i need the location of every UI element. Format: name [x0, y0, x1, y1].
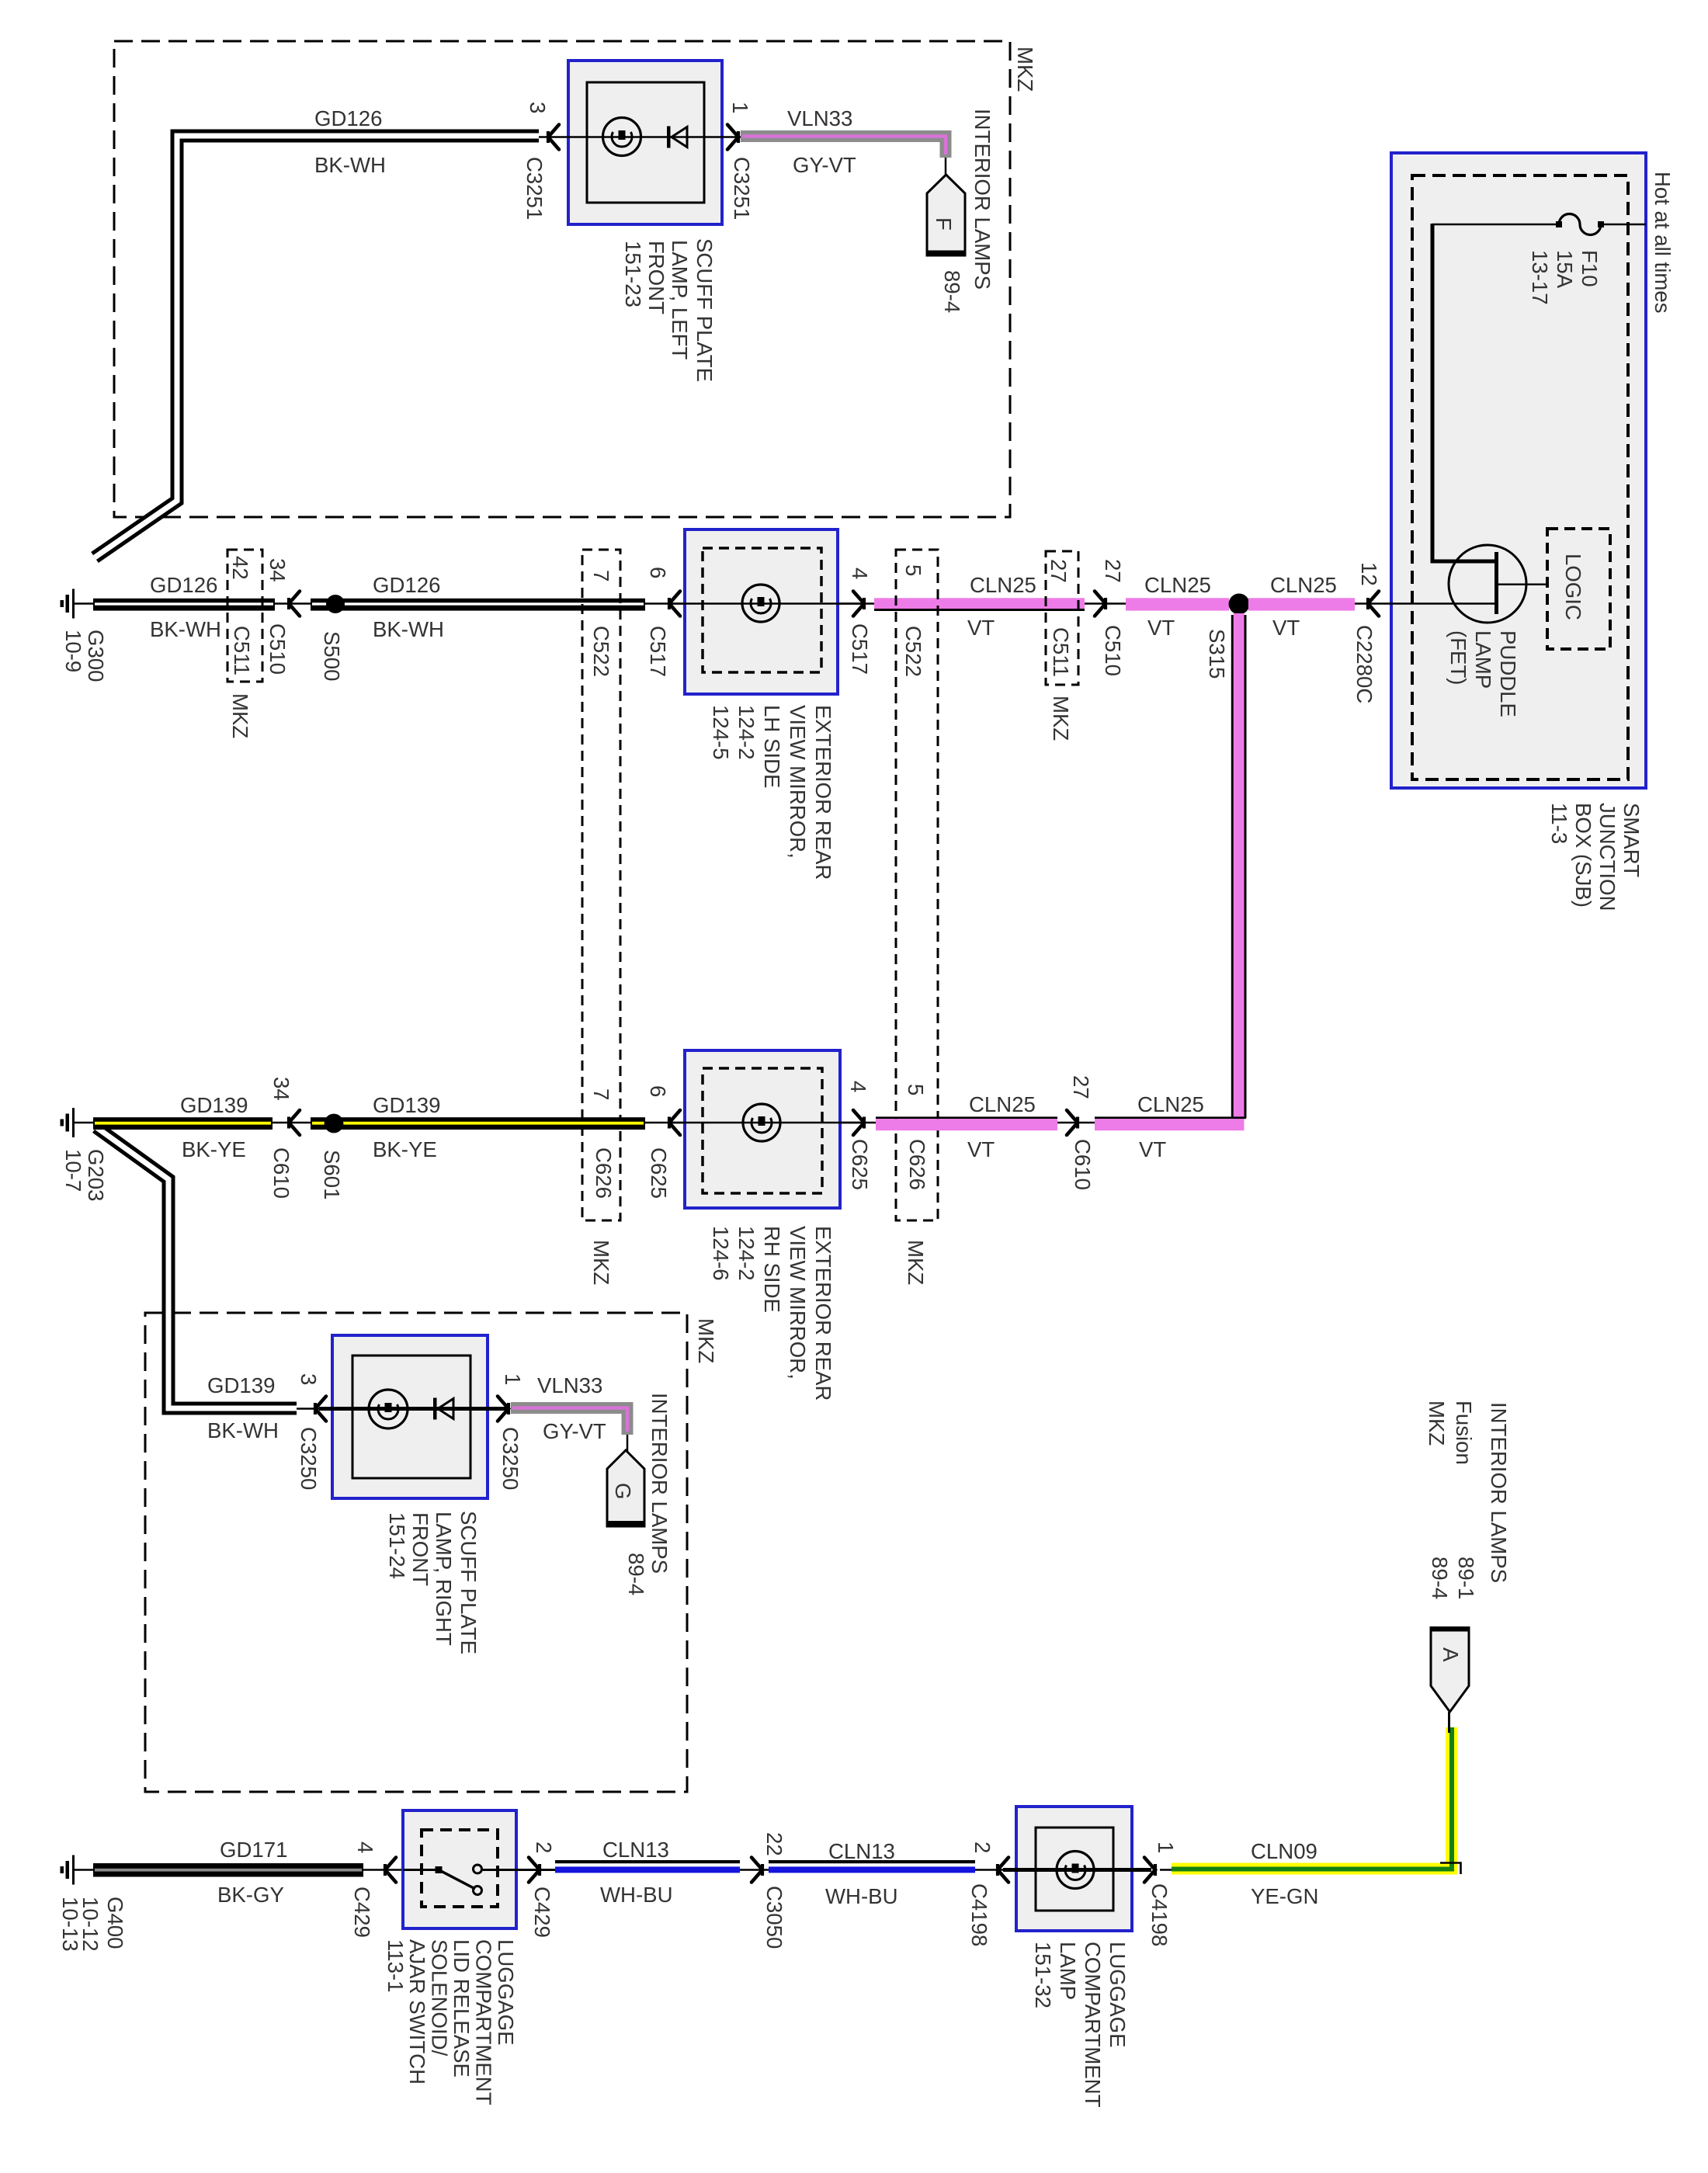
svg-text:C610: C610 [269, 1147, 293, 1199]
svg-text:C3250: C3250 [297, 1427, 321, 1490]
svg-text:LID RELEASE: LID RELEASE [450, 1939, 474, 2078]
in-line connector C522/C626 (7) tall dashed [582, 550, 620, 1220]
wire CLN25 VT segment C510-S315 [1126, 598, 1229, 610]
svg-text:YE-GN: YE-GN [1251, 1884, 1318, 1908]
svg-text:LOGIC: LOGIC [1561, 554, 1585, 620]
wire battery feed to fuse F10 [1432, 224, 1559, 226]
svg-text:LAMP, LEFT: LAMP, LEFT [668, 240, 692, 360]
svg-text:GD139: GD139 [373, 1093, 440, 1117]
svg-text:C2280C: C2280C [1352, 625, 1376, 703]
svg-text:BK-WH: BK-WH [314, 153, 386, 177]
wire through luggage lamp (thick) [1003, 1868, 1151, 1872]
lamp symbol (left scuff) [603, 118, 641, 156]
svg-text:7: 7 [589, 1088, 613, 1100]
svg-text:22: 22 [762, 1832, 786, 1856]
svg-text:VT: VT [1272, 616, 1300, 640]
wire through RH mirror [669, 1122, 864, 1124]
wire CLN13 WH-BU segment 2 [769, 1860, 975, 1863]
wire GD139 BK-YE segment 1 [93, 1117, 273, 1130]
svg-text:SOLENOID/: SOLENOID/ [428, 1939, 452, 2057]
svg-text:C3251: C3251 [522, 157, 547, 220]
svg-text:89-1: 89-1 [1454, 1557, 1478, 1599]
svg-text:MKZ: MKZ [228, 693, 252, 738]
svg-text:C3250: C3250 [498, 1427, 522, 1490]
svg-text:89-4: 89-4 [624, 1553, 648, 1595]
svg-text:10-13: 10-13 [58, 1897, 82, 1952]
svg-text:LH SIDE: LH SIDE [760, 705, 784, 788]
ground G203 [72, 1108, 75, 1137]
svg-text:6: 6 [646, 1085, 670, 1097]
svg-text:VT: VT [1139, 1137, 1166, 1161]
svg-text:1: 1 [728, 102, 752, 113]
svg-text:F: F [932, 217, 956, 231]
svg-text:COMPARTMENT: COMPARTMENT [1081, 1942, 1105, 2108]
svg-text:124-2: 124-2 [734, 1226, 759, 1281]
svg-text:12: 12 [1357, 562, 1381, 586]
in-line connector C511 (42/34) MKZ [227, 550, 262, 682]
switch SW1 contacts [403, 1869, 436, 1871]
wire through scuff right (thick) [319, 1407, 506, 1411]
svg-text:124-5: 124-5 [709, 705, 733, 760]
svg-text:C429: C429 [530, 1887, 554, 1938]
svg-text:1: 1 [501, 1373, 525, 1385]
svg-text:15A: 15A [1553, 250, 1577, 289]
svg-text:MKZ: MKZ [904, 1240, 928, 1285]
svg-text:LUGGAGE: LUGGAGE [494, 1939, 518, 2045]
svg-text:S601: S601 [320, 1150, 344, 1199]
svg-text:VLN33: VLN33 [787, 106, 852, 130]
svg-text:WH-BU: WH-BU [825, 1884, 898, 1908]
wire GD126 BK-WH segment 2 [311, 599, 645, 611]
svg-text:CLN25: CLN25 [969, 1092, 1036, 1116]
transistor Q1 puddle lamp FET [1449, 545, 1526, 623]
svg-text:124-2: 124-2 [734, 705, 759, 760]
wire GD139 BK-WH hollow run to scuff lamp right [96, 1127, 297, 1408]
svg-text:FRONT: FRONT [408, 1512, 432, 1586]
svg-text:C3050: C3050 [762, 1886, 786, 1949]
svg-text:G: G [611, 1483, 635, 1499]
svg-text:GD139: GD139 [180, 1093, 248, 1117]
wire row 2 base line [75, 1122, 876, 1124]
svg-text:89-4: 89-4 [940, 270, 964, 313]
svg-text:CLN25: CLN25 [1270, 573, 1337, 597]
svg-text:GD126: GD126 [150, 573, 217, 597]
svg-text:Hot at all times: Hot at all times [1651, 172, 1675, 314]
svg-text:INTERIOR LAMPS: INTERIOR LAMPS [970, 109, 995, 290]
svg-text:S500: S500 [320, 631, 344, 681]
in-line connector flag G [607, 1450, 644, 1526]
svg-text:42: 42 [228, 556, 252, 580]
svg-text:1: 1 [1154, 1841, 1178, 1853]
svg-text:INTERIOR LAMPS: INTERIOR LAMPS [1487, 1402, 1511, 1583]
svg-text:JUNCTION: JUNCTION [1595, 803, 1619, 911]
in-line connector C511 (27) MKZ [1046, 551, 1078, 685]
svg-text:10-9: 10-9 [61, 630, 85, 672]
svg-text:MKZ: MKZ [694, 1318, 718, 1363]
svg-text:LAMP: LAMP [1471, 630, 1495, 689]
svg-text:13-17: 13-17 [1528, 250, 1552, 305]
svg-text:27: 27 [1047, 559, 1071, 583]
in-line connector C522/C626 (5) tall dashed [896, 550, 938, 1220]
svg-text:Fusion: Fusion [1452, 1401, 1476, 1465]
harness dashed box MKZ (lower, scuff plate lamp right) [145, 1313, 687, 1792]
svg-text:CLN13: CLN13 [828, 1839, 895, 1863]
svg-text:MKZ: MKZ [1425, 1401, 1449, 1446]
svg-text:151-23: 151-23 [621, 241, 645, 307]
svg-text:PUDDLE: PUDDLE [1496, 630, 1520, 717]
svg-text:GD126: GD126 [373, 573, 440, 597]
svg-text:124-6: 124-6 [709, 1226, 733, 1281]
svg-text:INTERIOR LAMPS: INTERIOR LAMPS [647, 1393, 672, 1574]
svg-text:(FET): (FET) [1446, 630, 1470, 686]
svg-text:CLN25: CLN25 [970, 573, 1036, 597]
svg-text:COMPARTMENT: COMPARTMENT [472, 1939, 496, 2105]
scuff plate lamp, right front 151-24 [332, 1335, 488, 1498]
wire CLN13 WH-BU segment 1 [555, 1860, 740, 1863]
svg-text:C625: C625 [848, 1139, 872, 1190]
svg-text:CLN25: CLN25 [1144, 573, 1211, 597]
svg-text:LAMP: LAMP [1056, 1942, 1080, 2000]
splice S500 [326, 595, 345, 613]
wire through scuff plate lamp left [539, 136, 741, 138]
splice S315 [1229, 594, 1250, 615]
svg-text:C511: C511 [230, 626, 254, 675]
svg-text:VLN33: VLN33 [537, 1373, 602, 1397]
lamp symbol (LH mirror puddle lamp) [742, 585, 779, 622]
svg-text:151-32: 151-32 [1031, 1942, 1055, 2008]
wire stub to connector G [627, 1435, 629, 1451]
svg-text:7: 7 [589, 570, 613, 581]
svg-text:C517: C517 [646, 626, 670, 677]
wire CLN25 VT vertical S315 to RH mirror row [1231, 615, 1234, 1118]
lamp symbol (RH mirror puddle lamp) [743, 1104, 780, 1141]
svg-text:4: 4 [848, 568, 872, 579]
diode D1 (left scuff) [667, 127, 671, 148]
svg-text:C3251: C3251 [730, 157, 754, 220]
wire GD139 BK-YE segment 2 [311, 1117, 645, 1130]
svg-text:BK-GY: BK-GY [217, 1883, 284, 1907]
svg-text:C4198: C4198 [1147, 1883, 1172, 1946]
wire fuse to FET drain [1432, 224, 1496, 561]
svg-text:C522: C522 [901, 626, 925, 677]
svg-text:MKZ: MKZ [1049, 696, 1073, 741]
svg-text:C517: C517 [848, 623, 872, 675]
svg-text:BK-WH: BK-WH [150, 617, 221, 641]
svg-text:C626: C626 [905, 1139, 929, 1190]
svg-text:89-4: 89-4 [1428, 1557, 1452, 1599]
svg-text:CLN09: CLN09 [1251, 1839, 1317, 1863]
svg-text:BK-WH: BK-WH [373, 617, 444, 641]
svg-text:GY-VT: GY-VT [793, 153, 856, 177]
wire GD126 BK-WH segment 1 [93, 599, 275, 611]
svg-text:5: 5 [901, 564, 925, 576]
scuff plate lamp, left front 151-23 [568, 61, 722, 224]
svg-text:C4198: C4198 [967, 1883, 991, 1946]
wire VLN33 GY-VT (lower) [511, 1408, 627, 1435]
luggage compartment lid release solenoid/ajar switch 113-1 [403, 1810, 516, 1928]
wire CLN25 VT segment C625-C610 [876, 1116, 1057, 1119]
wire GD126 BK-WH hollow run from scuff lamp left to ground row [95, 136, 539, 557]
svg-text:G300: G300 [84, 630, 108, 682]
svg-text:LAMP, RIGHT: LAMP, RIGHT [432, 1512, 456, 1646]
svg-text:VT: VT [1147, 616, 1175, 640]
wire CLN25 VT segment S315-C2280C [1248, 598, 1355, 610]
wire stub to connector F [945, 158, 947, 175]
svg-text:F10: F10 [1578, 250, 1602, 287]
svg-text:FRONT: FRONT [644, 241, 668, 314]
svg-text:BK-YE: BK-YE [373, 1137, 437, 1161]
wire stub from connector A [1448, 1712, 1450, 1733]
wire VLN33 GY-VT (top) [741, 137, 946, 158]
svg-text:34: 34 [269, 1077, 293, 1101]
svg-text:SCUFF PLATE: SCUFF PLATE [693, 238, 717, 382]
svg-text:GY-VT: GY-VT [543, 1419, 606, 1443]
svg-text:27: 27 [1101, 559, 1125, 583]
svg-text:SCUFF PLATE: SCUFF PLATE [457, 1511, 481, 1654]
svg-text:4: 4 [353, 1841, 377, 1853]
svg-text:BOX (SJB): BOX (SJB) [1571, 803, 1595, 908]
exterior rear view mirror, RH side 124-2 124-6 [685, 1050, 840, 1208]
smart junction box SJB outline [1391, 153, 1646, 788]
svg-text:151-24: 151-24 [385, 1512, 409, 1579]
svg-text:C610: C610 [1071, 1139, 1095, 1190]
svg-text:EXTERIOR REAR: EXTERIOR REAR [811, 705, 835, 880]
LOGIC dashed block U1 [1547, 529, 1610, 649]
wire CLN25 VT segment C517-C510 [874, 598, 1085, 609]
luggage compartment lamp 151-32 [1016, 1807, 1132, 1931]
svg-text:2: 2 [532, 1841, 556, 1853]
svg-text:S315: S315 [1205, 629, 1229, 679]
in-line connector flag F [927, 175, 965, 255]
svg-text:C429: C429 [350, 1887, 374, 1938]
svg-text:6: 6 [646, 567, 670, 578]
svg-text:AJAR SWITCH: AJAR SWITCH [405, 1939, 429, 2084]
svg-text:3: 3 [297, 1373, 321, 1385]
wire row 1 base line [75, 602, 1496, 605]
svg-text:RH SIDE: RH SIDE [760, 1226, 784, 1313]
svg-text:G400: G400 [103, 1897, 127, 1949]
ground G300 [72, 589, 75, 619]
exterior rear view mirror, LH side 124-2 124-5 [685, 529, 838, 694]
connector arrow C510 [289, 592, 300, 616]
svg-text:BK-WH: BK-WH [207, 1418, 279, 1442]
svg-text:CLN25: CLN25 [1137, 1092, 1204, 1116]
svg-text:GD126: GD126 [314, 106, 382, 130]
svg-text:10-7: 10-7 [61, 1149, 85, 1192]
splice S601 [325, 1114, 344, 1133]
wire GD139 BK-WH into scuff lamp right [297, 1408, 326, 1410]
svg-text:34: 34 [266, 558, 290, 582]
svg-text:LUGGAGE: LUGGAGE [1106, 1942, 1130, 2047]
svg-text:C510: C510 [266, 623, 290, 675]
svg-text:5: 5 [904, 1084, 928, 1095]
svg-text:MKZ: MKZ [589, 1240, 613, 1285]
svg-text:113-1: 113-1 [384, 1939, 408, 1993]
svg-text:C626: C626 [592, 1147, 616, 1199]
svg-text:CLN13: CLN13 [602, 1838, 669, 1862]
svg-text:VT: VT [967, 616, 995, 640]
lamp symbol (luggage lamp) [1057, 1852, 1094, 1889]
svg-text:WH-BU: WH-BU [600, 1883, 673, 1907]
wire row 3 base segments [75, 1869, 95, 1871]
fuse F10 15A 13-17 [1559, 214, 1601, 235]
svg-text:4: 4 [846, 1081, 870, 1092]
svg-text:2: 2 [970, 1841, 995, 1853]
svg-text:SMART: SMART [1619, 803, 1644, 877]
diode D2 (right scuff) [433, 1398, 437, 1420]
svg-text:MKZ: MKZ [1013, 47, 1037, 92]
wire FET gate to LOGIC [1498, 583, 1547, 585]
svg-text:3: 3 [526, 102, 550, 113]
svg-text:EXTERIOR REAR: EXTERIOR REAR [811, 1226, 835, 1401]
svg-text:A: A [1439, 1647, 1463, 1662]
svg-text:VIEW MIRROR,: VIEW MIRROR, [786, 1226, 810, 1380]
svg-text:GD139: GD139 [207, 1373, 275, 1397]
wire CLN25 VT segment C610 to S315 riser [1095, 1116, 1246, 1119]
svg-text:27: 27 [1069, 1075, 1093, 1099]
svg-text:VIEW MIRROR,: VIEW MIRROR, [786, 705, 810, 859]
svg-text:11-3: 11-3 [1547, 803, 1571, 844]
svg-text:GD171: GD171 [220, 1838, 287, 1862]
svg-text:BK-YE: BK-YE [182, 1137, 246, 1161]
wire GD171 BK-GY [93, 1863, 363, 1877]
svg-text:C510: C510 [1101, 625, 1125, 676]
svg-text:C522: C522 [589, 626, 613, 677]
svg-text:G203: G203 [84, 1149, 108, 1202]
svg-text:VT: VT [967, 1137, 995, 1161]
svg-text:C511: C511 [1049, 627, 1073, 677]
wire through LH mirror [669, 602, 864, 605]
lamp symbol (right scuff) [369, 1390, 408, 1428]
svg-text:C625: C625 [647, 1147, 671, 1199]
in-line connector flag A [1430, 1626, 1470, 1634]
SJB inner dashed boundary [1412, 175, 1628, 779]
harness dashed box MKZ INTERIOR LAMPS (top) [114, 41, 1010, 517]
wire CLN09 YE-GN [1160, 1869, 1174, 1871]
ground G400 [72, 1855, 75, 1885]
